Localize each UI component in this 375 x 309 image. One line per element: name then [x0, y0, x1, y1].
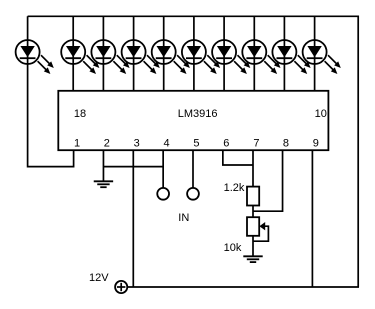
- wire pin 2 to ground: [102, 150, 104, 181]
- svg-text:10: 10: [315, 108, 327, 120]
- wire pot bottom to ground: [252, 236, 254, 256]
- op-amp U1 LM3916 body: [58, 91, 328, 150]
- wire LED10 column: [314, 16, 316, 91]
- LED D1: [16, 40, 54, 74]
- svg-text:10k: 10k: [224, 242, 242, 254]
- wire LED5 column: [163, 16, 165, 91]
- wire pin 8 to R1/pot junction: [253, 150, 283, 211]
- LED D5: [152, 40, 190, 74]
- potentiometer R2 wiper arrow: [259, 222, 265, 230]
- wire LED9 column: [283, 16, 285, 91]
- wire pin 5 to IN+ terminal: [192, 150, 194, 188]
- ground (pot): [243, 256, 262, 262]
- svg-text:LM3916: LM3916: [178, 108, 218, 120]
- svg-text:4: 4: [163, 137, 169, 149]
- LED D10: [303, 40, 341, 74]
- terminal IN- (circle): [157, 188, 169, 200]
- wire LED4 column: [133, 16, 135, 91]
- wire pin 7 to resistor R1: [252, 150, 254, 186]
- wire pot wiper return: [253, 226, 268, 241]
- svg-text:6: 6: [223, 137, 229, 149]
- wire pin 6 to pin 7: [223, 150, 253, 165]
- wire pin 4 to IN- terminal: [162, 150, 164, 188]
- wire pin 9 to +12V rail: [311, 150, 313, 287]
- terminal +12V supply: [115, 281, 127, 293]
- LED D8: [242, 40, 280, 74]
- LED D3: [91, 40, 129, 74]
- wire LED6 column: [193, 16, 195, 91]
- svg-text:7: 7: [253, 137, 259, 149]
- svg-text:3: 3: [134, 137, 140, 149]
- wire LED2 column: [72, 16, 74, 91]
- potentiometer R2 10k body: [247, 217, 259, 236]
- svg-text:IN: IN: [178, 212, 189, 224]
- svg-text:18: 18: [74, 108, 86, 120]
- wire pin 3 to +12V rail: [132, 150, 134, 287]
- terminal IN+ (circle): [187, 188, 199, 200]
- LED D4: [122, 40, 160, 74]
- LED D6: [182, 40, 220, 74]
- svg-text:5: 5: [193, 137, 199, 149]
- resistor R1 1.2k: [247, 187, 259, 206]
- wire LED3 column: [102, 16, 104, 91]
- LED D2: [61, 40, 99, 74]
- svg-text:9: 9: [313, 137, 319, 149]
- wire R1 bottom to pot top: [252, 206, 254, 218]
- ground (pin 2): [94, 181, 113, 187]
- wire top +V rail: [28, 15, 359, 17]
- svg-text:2: 2: [104, 137, 110, 149]
- LED D7: [212, 40, 250, 74]
- wire LED8 column: [253, 16, 255, 91]
- svg-text:8: 8: [283, 137, 289, 149]
- svg-text:12V: 12V: [89, 272, 109, 284]
- wire pin 2 to pin 4 (crosses pin 3): [103, 166, 163, 168]
- LED D9: [272, 40, 310, 74]
- wire LED7 column: [223, 16, 225, 91]
- svg-text:1: 1: [74, 137, 80, 149]
- wire LED1 column and run to pin 1: [28, 16, 74, 166]
- wire right rail: [357, 16, 359, 288]
- svg-text:1.2k: 1.2k: [224, 182, 245, 194]
- wire bottom +12V rail: [127, 286, 359, 288]
